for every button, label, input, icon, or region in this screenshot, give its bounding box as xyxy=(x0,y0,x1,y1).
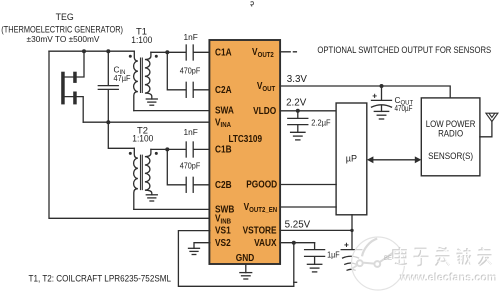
capacitor CIN 47uF xyxy=(98,51,130,122)
svg-text:VS1: VS1 xyxy=(215,224,231,236)
wire: GND pin xyxy=(245,264,247,273)
capacitor 470pF A xyxy=(186,82,210,97)
svg-text:470pF: 470pF xyxy=(180,66,201,76)
capacitor 470pF B xyxy=(186,177,210,192)
transformer T1 xyxy=(129,51,158,110)
wire: VOUT to radio xyxy=(280,86,450,98)
node: 2.2uF junction xyxy=(296,109,300,113)
wire: T1 primary bottom to SWA xyxy=(134,110,210,112)
svg-text:2.2V: 2.2V xyxy=(286,97,307,108)
node: A-side coupling junction xyxy=(165,50,169,54)
wire: storage bottom return stub (erased by watermark) xyxy=(294,281,297,283)
wire: VOUT2 dashed stub xyxy=(280,51,296,53)
T2 secondary winding xyxy=(145,149,152,194)
svg-text:LTC3109: LTC3109 xyxy=(229,134,263,145)
T2 polarity dots xyxy=(129,152,132,155)
node: COUT junction xyxy=(380,84,384,88)
node: B-side coupling junction xyxy=(165,147,169,151)
radio box: LOW POWER RADIO SENSOR(S) xyxy=(421,98,480,176)
node: VAUX junction xyxy=(292,241,296,245)
wire: VOUT2_EN to uP xyxy=(280,206,336,208)
wire: VAUX to 1uF xyxy=(280,242,315,244)
node: VSTORE junction xyxy=(350,229,353,232)
antenna xyxy=(480,113,498,137)
T1 secondary winding xyxy=(145,52,152,99)
svg-text:BE: BE xyxy=(384,256,392,262)
decorative top mark xyxy=(251,2,254,7)
capacitor COUT 470uF (polarized) xyxy=(372,86,414,113)
svg-text:2.2µF: 2.2µF xyxy=(311,117,330,127)
svg-text:470µF: 470µF xyxy=(395,103,413,113)
watermark logo circle xyxy=(352,237,405,290)
svg-text:+: + xyxy=(372,90,377,100)
wire: TEG- / CIN bottom to VINA xyxy=(83,121,210,123)
wire: T2 secondary top to C1B xyxy=(151,148,186,150)
ground: 1uF xyxy=(307,264,321,272)
svg-text:TEG: TEG xyxy=(56,12,74,22)
ground: VS2 xyxy=(189,248,200,254)
svg-text:VLDO: VLDO xyxy=(253,104,276,116)
svg-text:+: + xyxy=(344,240,349,250)
wire: VINA node down and right to T2 primary xyxy=(108,122,134,148)
svg-text:1µF: 1µF xyxy=(327,249,340,259)
svg-text:47µF: 47µF xyxy=(114,73,131,83)
arrow: uP <-> sensors xyxy=(367,156,421,163)
wire: VSTORE to storage xyxy=(280,230,352,249)
svg-text:±30mV TO ±500mV: ±30mV TO ±500mV xyxy=(27,34,100,44)
T2 core xyxy=(141,155,143,191)
op-amp U1 : LTC3109 chip body xyxy=(209,40,280,264)
wire: junction down to 470pF B xyxy=(167,149,185,184)
node: TEG top junction xyxy=(82,49,86,53)
wire: far-left vertical TEG+ to VINB xyxy=(49,51,210,218)
svg-text:VAUX: VAUX xyxy=(254,236,277,248)
svg-text:OPTIONAL SWITCHED OUTPUT FOR S: OPTIONAL SWITCHED OUTPUT FOR SENSORS xyxy=(317,45,491,55)
watermark chinese characters (stylized) xyxy=(393,247,492,266)
svg-text:C1A: C1A xyxy=(215,45,232,57)
svg-text:470pF: 470pF xyxy=(180,161,201,171)
svg-text:RADIO: RADIO xyxy=(438,127,463,138)
svg-text:1:100: 1:100 xyxy=(131,34,152,45)
ground: T2 secondary xyxy=(146,195,157,201)
node: CIN top junction xyxy=(106,49,110,53)
ground: chip GND xyxy=(240,273,252,279)
wire: VS1 loop to VAUX xyxy=(178,231,293,287)
wire: PGOOD to uP xyxy=(280,184,336,186)
svg-text:5.25V: 5.25V xyxy=(285,220,311,231)
svg-text:VS2: VS2 xyxy=(215,236,231,248)
wire: T1 secondary top to C1A xyxy=(151,51,186,53)
svg-text:3.3V: 3.3V xyxy=(287,74,308,85)
capacitor 1nF B xyxy=(186,142,210,157)
wire: VS2 to ground xyxy=(194,243,210,249)
svg-text:VSTORE: VSTORE xyxy=(243,224,277,236)
transformer T2 xyxy=(129,148,158,209)
T1 core xyxy=(141,58,143,94)
capacitor 2.2uF xyxy=(288,111,331,133)
T1 polarity dots xyxy=(129,55,132,58)
wire: junction down to 470pF A xyxy=(167,52,185,90)
svg-text:1:100: 1:100 xyxy=(132,133,153,144)
svg-text:µP: µP xyxy=(346,154,357,164)
svg-text:PGOOD: PGOOD xyxy=(246,178,277,190)
uP microprocessor box xyxy=(336,103,367,215)
ground: T1 secondary xyxy=(146,99,157,105)
svg-text:GND: GND xyxy=(236,251,255,263)
svg-text:C2A: C2A xyxy=(215,83,232,95)
wire: VLDO to uP xyxy=(280,110,336,112)
ground: 2.2uF xyxy=(291,132,305,140)
wire: top TEG+ net horizontal xyxy=(49,50,134,52)
capacitor 1nF A xyxy=(186,45,210,60)
svg-text:C2B: C2B xyxy=(215,178,232,190)
svg-text:1nF: 1nF xyxy=(184,127,198,137)
svg-text:1nF: 1nF xyxy=(184,32,198,42)
svg-text:T1, T2: COILCRAFT LPR6235-752S: T1, T2: COILCRAFT LPR6235-752SML xyxy=(29,273,172,283)
TEG thermoelectric generator symbol xyxy=(61,51,84,122)
svg-text:www.elecfans.com: www.elecfans.com xyxy=(400,272,498,284)
storage element (battery/supercap) xyxy=(341,240,362,271)
node: CIN bottom junction xyxy=(106,120,110,124)
ground: COUT xyxy=(374,111,388,119)
svg-text:SWA: SWA xyxy=(215,104,234,116)
wire: T2 primary bottom to SWB xyxy=(134,208,210,210)
wire: uP bottom to VSTORE xyxy=(351,215,353,231)
T2 primary winding xyxy=(134,148,138,209)
T1 primary winding xyxy=(134,51,138,110)
capacitor 1uF xyxy=(305,243,340,265)
svg-text:SENSOR(S): SENSOR(S) xyxy=(428,150,473,161)
